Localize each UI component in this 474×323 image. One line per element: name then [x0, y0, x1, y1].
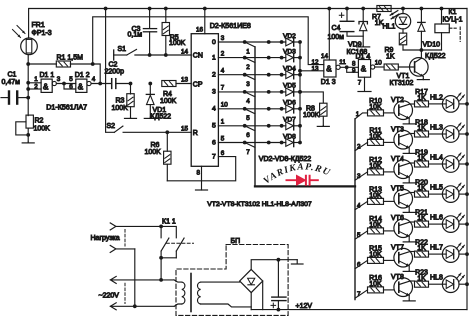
ground for VD1 [144, 117, 156, 118]
svg-text:1: 1 [212, 54, 216, 61]
resistor R23 [415, 281, 443, 287]
light arrows HL7 [456, 243, 464, 251]
resistor below HL1 [399, 33, 406, 50]
ground for R3 [125, 117, 137, 120]
relay coil K1 [435, 7, 449, 50]
bundle exit wire 4 [355, 201, 368, 209]
resistor R16 [368, 287, 394, 293]
svg-text:КТ3102: КТ3102 [390, 80, 414, 87]
svg-text:VT5: VT5 [391, 185, 404, 192]
ground for VT1 [417, 78, 429, 81]
terminal Нагрузка 2 [110, 245, 135, 252]
svg-text:10: 10 [375, 60, 383, 67]
capacitor C1 [1, 92, 28, 104]
svg-text:16: 16 [196, 27, 204, 34]
LED HL1 [395, 7, 410, 34]
transformer T1 secondary [198, 282, 252, 307]
svg-text:10K: 10K [369, 281, 382, 288]
svg-text:D1-К561ЛА7: D1-К561ЛА7 [46, 104, 87, 112]
wire collector node VT1 [403, 48, 442, 52]
resistor R22 [415, 251, 443, 257]
light arrows HL5 [456, 183, 464, 191]
wire D2 output 4 row [218, 107, 285, 111]
svg-text:VD6: VD6 [283, 100, 296, 107]
plus sign filter cap [271, 303, 276, 308]
light arrows HL8 [456, 273, 464, 281]
wire D1.4 output to R9 [375, 66, 384, 68]
resistor R12 [368, 169, 394, 175]
svg-text:1K: 1K [417, 155, 426, 162]
ground for R2 [22, 141, 34, 144]
ground for D1.4 pin 7 [358, 77, 371, 91]
svg-text:R4: R4 [163, 91, 172, 98]
svg-text:15: 15 [181, 125, 189, 132]
resistor R13 [368, 198, 394, 204]
svg-text:10: 10 [221, 102, 229, 109]
wire bridge minus output [251, 258, 297, 270]
resistor R8 [300, 92, 327, 126]
svg-text:8: 8 [197, 170, 201, 177]
svg-text:ФР1-3: ФР1-3 [32, 30, 52, 37]
transistor VT6 [394, 219, 415, 242]
LED HL6 [442, 216, 469, 233]
svg-text:4: 4 [92, 76, 96, 83]
svg-text:1K: 1K [417, 95, 426, 102]
svg-text:R2: R2 [35, 118, 44, 125]
resistor R20 [415, 191, 443, 197]
svg-text:CN: CN [193, 53, 203, 60]
svg-text:7: 7 [212, 154, 216, 161]
svg-text:4: 4 [221, 68, 225, 75]
bundle entry wire 1 [245, 42, 255, 47]
svg-text:VT7: VT7 [391, 244, 404, 251]
bundle entry wire 3 [245, 75, 255, 80]
resistor R14 [368, 228, 394, 234]
light arrows HL6 [456, 213, 464, 221]
ground for VT7 [403, 270, 415, 273]
NAND gate D1.1 [41, 79, 56, 92]
ground for VT5 [403, 211, 415, 214]
svg-text:100K: 100K [145, 149, 162, 156]
svg-text:HL6: HL6 [430, 215, 443, 222]
wire R6 to output 7 of D2 [167, 157, 235, 181]
resistor R21 [415, 221, 443, 227]
bundle entry wire 7 [245, 143, 255, 148]
svg-text:+12V: +12V [296, 303, 313, 310]
svg-text:100K: 100K [160, 98, 177, 105]
diode VD4 [286, 71, 302, 79]
bundle entry wire 4 [245, 92, 255, 97]
svg-text:VT1: VT1 [397, 73, 410, 80]
svg-text:2: 2 [246, 64, 250, 71]
svg-text:S2: S2 [107, 123, 116, 130]
light arrows HL4 [456, 153, 464, 161]
bundle exit wire 3 [355, 172, 368, 180]
resistor R19 [415, 161, 443, 167]
svg-text:VT2-VT8-КТ3102 HL1-HL8-АЛ307: VT2-VT8-КТ3102 HL1-HL8-АЛ307 [207, 201, 312, 208]
transistor VT1 [410, 50, 429, 79]
transistor VT2 [394, 101, 415, 124]
svg-text:2: 2 [221, 50, 225, 57]
svg-text:10K: 10K [369, 193, 382, 200]
bundle entry wire 2 [245, 58, 255, 63]
svg-text:14: 14 [181, 48, 189, 55]
wire D1.3 pin 14 to +12V [327, 7, 331, 60]
svg-text:2: 2 [357, 143, 361, 150]
resistor R3 [127, 82, 134, 119]
svg-text:1: 1 [34, 76, 38, 83]
connector dashes Нагрузка [124, 230, 126, 247]
ground for VD9 [357, 45, 370, 48]
wire second top rail to D1.3 pin 12 [93, 17, 324, 65]
svg-text:C4: C4 [332, 25, 341, 32]
svg-text:VT8: VT8 [391, 274, 404, 281]
resistor R18 [415, 131, 443, 137]
svg-text:C2: C2 [109, 62, 118, 69]
relay K1 linkage dashes [449, 27, 460, 42]
svg-text:0,1м: 0,1м [128, 32, 143, 39]
svg-text:5: 5 [212, 123, 216, 130]
wire bridge AC legs [251, 281, 263, 310]
svg-text:VD10: VD10 [423, 42, 441, 49]
wire R1 node to D1.2 output [93, 64, 102, 85]
NAND gate D1.2 [76, 79, 91, 92]
capacitor C2 [112, 79, 131, 89]
light arrows HL3 [456, 123, 464, 131]
svg-text:R6: R6 [151, 142, 160, 149]
transistor VT4 [394, 160, 415, 183]
diode VD8 [286, 138, 302, 146]
svg-text:5: 5 [69, 76, 73, 83]
svg-text:Нагрузка: Нагрузка [91, 235, 120, 242]
connector dashes 220V [124, 283, 126, 303]
ground for VT6 [403, 240, 415, 243]
svg-text:VT6: VT6 [391, 215, 404, 222]
svg-text:&: & [361, 65, 367, 74]
resistor R9 [384, 64, 415, 70]
bundle entry wire 5 [245, 109, 255, 114]
ground for bridge output [291, 260, 303, 264]
svg-text:100м: 100м [328, 34, 345, 41]
svg-text:VT4: VT4 [391, 156, 404, 163]
svg-text:6: 6 [212, 139, 216, 146]
wire D2 output 6 row [218, 141, 285, 145]
wire D2 pin 16 to +12V [203, 7, 207, 34]
diode VD10 [418, 7, 425, 50]
IC D2 K561IE8 box [191, 34, 218, 167]
svg-text:1K: 1K [417, 215, 426, 222]
watermark arc text VARIKAP.RU [262, 162, 332, 186]
wire cathode bus to D1.3 pin 13 [300, 70, 324, 72]
svg-text:&: & [326, 65, 332, 74]
svg-text:HL2: HL2 [430, 94, 443, 101]
svg-text:D2-К561ИЕ8: D2-К561ИЕ8 [210, 22, 251, 30]
terminal ~220V 2 [110, 303, 174, 310]
svg-text:2200p: 2200p [105, 69, 125, 76]
resistor R4 [162, 81, 191, 87]
terminal Нагрузка 1 [110, 223, 161, 230]
svg-text:1K: 1K [386, 54, 395, 61]
svg-text:6: 6 [246, 132, 250, 139]
svg-text:HL4: HL4 [430, 154, 443, 161]
svg-text:7: 7 [357, 291, 361, 298]
svg-text:VD2-VD8-КД522: VD2-VD8-КД522 [259, 156, 312, 163]
svg-text:1K: 1K [417, 125, 426, 132]
wire bottom +12V rail [251, 309, 467, 311]
svg-text:HL1: HL1 [383, 23, 396, 30]
svg-text:0,47м: 0,47м [2, 79, 21, 86]
svg-text:S1: S1 [118, 46, 127, 53]
bundle exit wire 1 [355, 113, 368, 119]
svg-text:~220V: ~220V [99, 293, 120, 300]
resistor R11 [368, 139, 394, 145]
switch S2 [114, 126, 191, 134]
LED HL4 [442, 156, 469, 173]
svg-text:D1 2: D1 2 [75, 72, 90, 79]
relay contacts K1.1 [159, 225, 184, 260]
wire Нагрузка 2 down to 220V line [133, 249, 137, 308]
svg-text:VT2: VT2 [391, 97, 404, 104]
svg-text:КД522: КД522 [151, 114, 172, 121]
svg-text:100K: 100K [34, 126, 51, 133]
svg-text:К1 1: К1 1 [162, 218, 176, 225]
LED HL5 [442, 186, 469, 203]
LED HL3 [442, 126, 469, 143]
svg-text:D1 3: D1 3 [321, 79, 336, 86]
svg-text:13: 13 [312, 66, 320, 73]
diode VD5 [286, 88, 302, 96]
svg-text:VD8: VD8 [283, 133, 296, 140]
svg-text:0: 0 [212, 39, 216, 46]
resistor R1 [28, 61, 94, 67]
wire FR1 bottom to R2 node column [26, 55, 30, 116]
svg-text:VD2: VD2 [283, 33, 296, 40]
svg-text:3: 3 [221, 35, 225, 42]
diode VD7 [286, 122, 302, 130]
svg-text:К1: К1 [449, 9, 457, 16]
diode VD6 [286, 105, 302, 113]
svg-text:&: & [43, 83, 49, 92]
svg-text:CP: CP [193, 81, 203, 88]
svg-text:4: 4 [212, 106, 216, 113]
ground for VT4 [403, 181, 415, 184]
filter capacitor [272, 260, 286, 312]
bundle exit wire 5 [355, 231, 368, 239]
ground for VT8 [403, 299, 415, 302]
transistor VT7 [394, 248, 415, 271]
resistor R2 with tap [16, 115, 34, 143]
svg-text:2: 2 [212, 72, 216, 79]
resistor R15 [368, 257, 394, 263]
svg-text:13: 13 [181, 77, 189, 84]
svg-text:VD4: VD4 [283, 66, 296, 73]
svg-text:VD3: VD3 [283, 48, 296, 55]
transistor VT5 [394, 189, 415, 212]
plus sign C4 [339, 13, 344, 18]
svg-text:БП: БП [231, 238, 241, 245]
capacitor C3 [143, 7, 156, 55]
svg-text:6: 6 [69, 83, 73, 90]
wire D2 output 1 row [218, 56, 285, 60]
NAND gate D1.4 [358, 60, 374, 78]
svg-text:2: 2 [34, 83, 38, 90]
light arrows into FR1 [13, 26, 26, 38]
wire right +12V rail [466, 9, 468, 310]
light arrows HL2 [456, 93, 464, 101]
bundle exit wire 2 [355, 142, 368, 150]
wire D2 output 0 row [218, 40, 285, 44]
svg-text:10K: 10K [369, 222, 382, 229]
svg-text:10K: 10K [369, 134, 382, 141]
svg-text:100K: 100K [303, 112, 320, 119]
wire +12V to S2 column [104, 7, 115, 133]
resistor R6 [164, 132, 171, 181]
bridge rectifier [240, 269, 263, 292]
svg-text:5: 5 [246, 115, 250, 122]
svg-text:C1: C1 [8, 72, 17, 79]
diode VD3 [286, 54, 302, 62]
svg-text:КУЦ-1: КУЦ-1 [443, 16, 463, 23]
LED HL7 [442, 246, 469, 263]
svg-text:VD5: VD5 [283, 83, 296, 90]
wire +12V top rail [29, 9, 467, 39]
resistor R17 [415, 101, 443, 107]
LED HL8 [442, 276, 469, 293]
svg-text:HL3: HL3 [430, 124, 443, 131]
bundle exit wire 6 [355, 260, 368, 268]
wire bundle group line [255, 47, 355, 300]
svg-text:VT3: VT3 [391, 126, 404, 133]
svg-text:VD7: VD7 [283, 117, 296, 124]
NAND gate D1.3 [324, 60, 340, 77]
wire D1.1 inputs [28, 83, 41, 89]
resistor R10 [368, 110, 394, 116]
svg-text:10K: 10K [369, 252, 382, 259]
svg-text:10K: 10K [369, 104, 382, 111]
switch S1 [114, 49, 192, 60]
svg-text:3: 3 [246, 81, 250, 88]
svg-text:3: 3 [57, 76, 61, 83]
ground for D2 pin 8 [196, 166, 208, 190]
svg-text:10K: 10K [369, 163, 382, 170]
svg-text:1K: 1K [417, 275, 426, 282]
capacitor C4 [340, 7, 363, 37]
diode VD2 [286, 38, 302, 46]
svg-text:9: 9 [352, 67, 356, 74]
wire D1.2 output to C2 [91, 83, 111, 85]
wire D1.3 output to D1.4 inputs [340, 65, 358, 72]
power supply dashed box БП [176, 245, 288, 316]
diode VD1 [146, 82, 154, 119]
wire D2 output 5 row [218, 124, 285, 128]
terminal ~220V 1 [110, 276, 174, 283]
svg-text:5: 5 [357, 232, 361, 239]
svg-text:1: 1 [246, 48, 250, 55]
svg-text:R: R [193, 130, 198, 137]
svg-text:1: 1 [356, 111, 360, 118]
ground for R8 [317, 125, 329, 128]
svg-text:100K: 100K [112, 105, 129, 112]
wire D1.1 output to D1.2 inputs [56, 82, 75, 89]
ground for VT2 [403, 122, 415, 125]
diode cathode bus wire [298, 42, 302, 143]
svg-text:7: 7 [358, 80, 362, 87]
light arrows at HL1 [390, 11, 399, 19]
svg-text:3: 3 [212, 89, 216, 96]
wire D2 output 2 row [218, 73, 285, 77]
svg-text:11: 11 [339, 59, 346, 66]
svg-text:1K: 1K [417, 185, 426, 192]
wire D2 output 3 row [218, 90, 285, 94]
svg-text:R1 1,5M: R1 1,5M [57, 55, 84, 62]
svg-text:1K: 1K [417, 245, 426, 252]
svg-text:1: 1 [221, 119, 225, 126]
photoresistor FR1 [21, 38, 38, 55]
svg-text:100K: 100K [169, 40, 186, 47]
zener diode VD9 [359, 7, 367, 47]
svg-text:6: 6 [357, 261, 361, 268]
resistor R5 [162, 7, 169, 55]
contact linkage dashes K1.1 [167, 242, 194, 244]
svg-text:HL5: HL5 [430, 185, 443, 192]
svg-text:4: 4 [357, 202, 361, 209]
svg-text:6: 6 [221, 150, 225, 157]
transformer T1 primary [174, 280, 185, 306]
watermark red varicap symbol [286, 175, 319, 186]
transistor VT8 [394, 278, 415, 301]
svg-text:HL7: HL7 [430, 245, 443, 252]
svg-text:7: 7 [221, 85, 225, 92]
transistor VT3 [394, 130, 415, 153]
wire K1.1 to 220V line [159, 258, 163, 282]
svg-text:&: & [78, 83, 84, 92]
svg-text:FR1: FR1 [32, 22, 45, 29]
svg-text:КД522: КД522 [425, 53, 446, 60]
svg-text:R3: R3 [116, 98, 125, 105]
svg-text:D1 1: D1 1 [40, 72, 55, 79]
svg-text:4: 4 [246, 98, 250, 105]
svg-text:14: 14 [321, 53, 329, 60]
LED HL2 [442, 96, 469, 113]
junction dots CN line [148, 53, 168, 57]
bundle exit wire 7 [355, 290, 368, 298]
svg-text:3: 3 [357, 173, 361, 180]
ground for VT3 [403, 152, 415, 155]
svg-text:HL8: HL8 [430, 275, 443, 282]
bundle entry wire 6 [245, 126, 255, 131]
svg-text:5: 5 [221, 135, 225, 142]
transformer core [190, 274, 192, 312]
svg-text:КС168: КС168 [347, 49, 368, 56]
svg-text:7: 7 [246, 149, 250, 156]
resistor R7 [377, 6, 391, 12]
